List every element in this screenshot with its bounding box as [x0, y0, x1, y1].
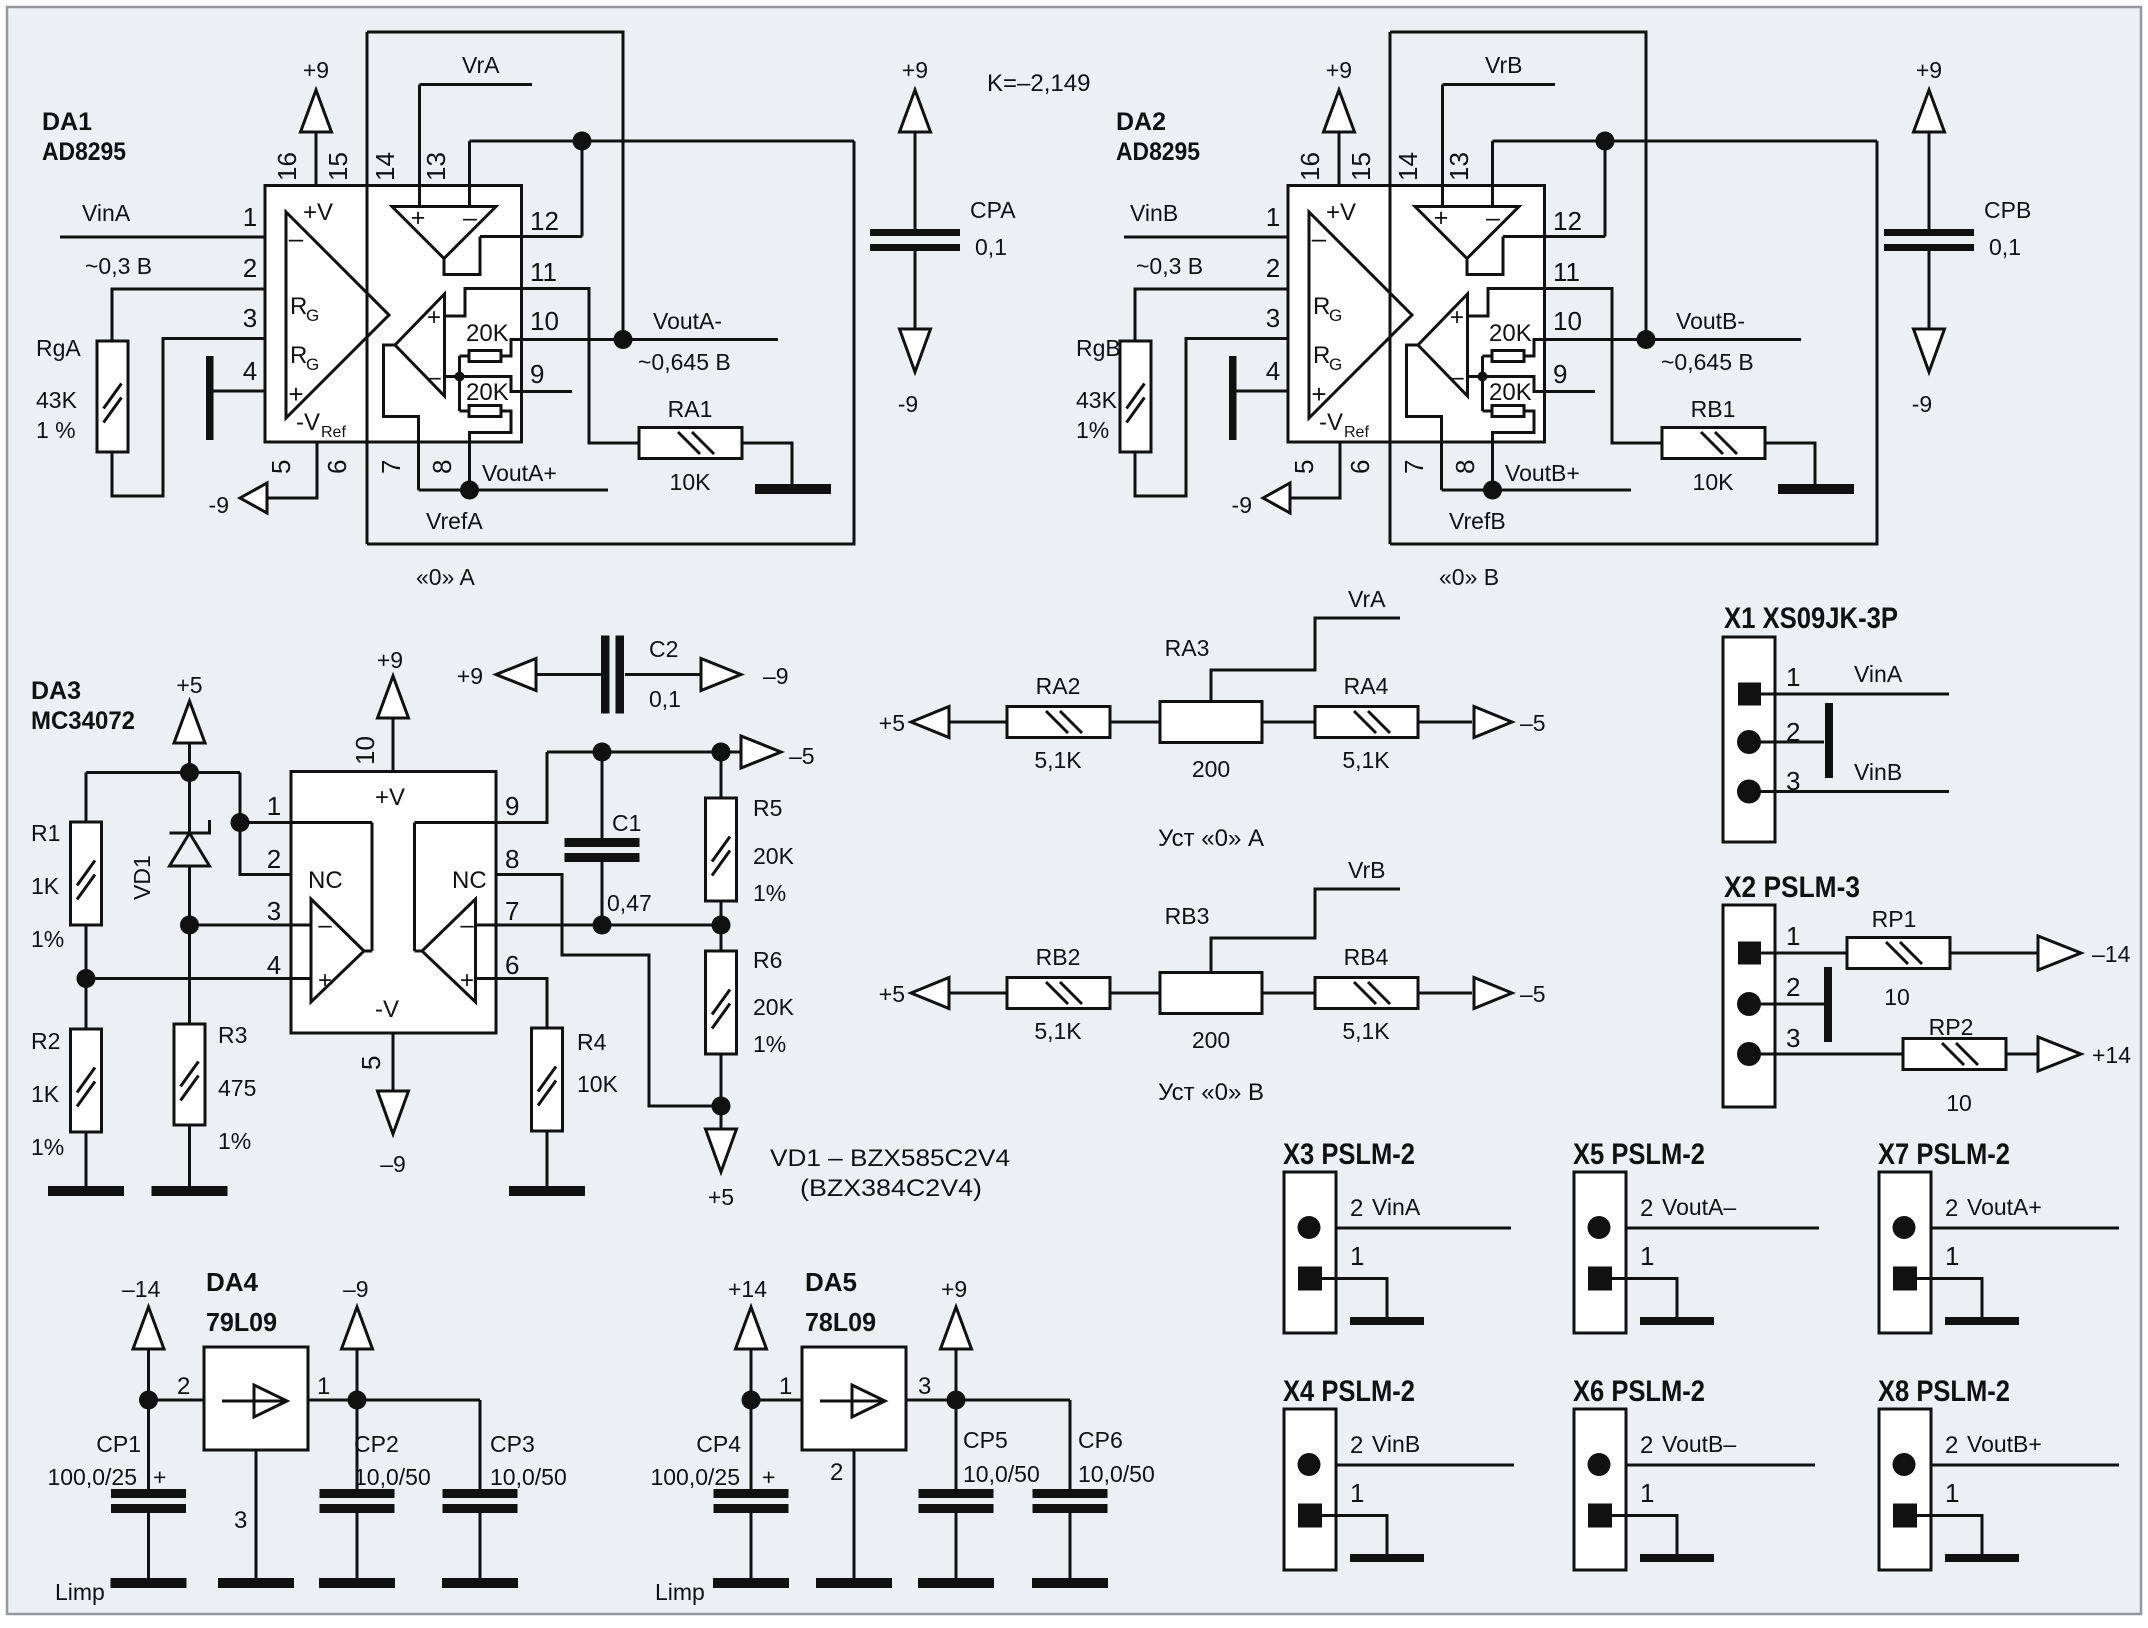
junction DA5 output — [947, 1391, 966, 1410]
svg-text:8: 8 — [427, 460, 457, 474]
svg-text:-9: -9 — [898, 391, 918, 417]
ground R2 — [48, 1186, 124, 1196]
wire 20K lower to pin8 VoutA+ — [470, 411, 512, 490]
svg-text:C2: C2 — [649, 636, 678, 662]
junction R5/R6/pin7 — [712, 916, 731, 935]
wire A2 + input to pin11 — [445, 289, 522, 317]
capacitor CP4 — [714, 1489, 789, 1513]
svg-text:«0» B: «0» B — [1439, 564, 1499, 590]
svg-text:43K: 43K — [1076, 387, 1118, 413]
capacitor CP2 — [320, 1489, 395, 1513]
svg-text:6: 6 — [322, 460, 352, 474]
junction VoutA- / loop — [614, 330, 633, 349]
svg-text:VoutB+: VoutB+ — [1967, 1431, 2042, 1457]
junction VoutA+ — [460, 481, 479, 500]
connector X5 PSLM-2 — [1574, 1172, 1714, 1333]
capacitor CP3 — [443, 1489, 518, 1513]
svg-text:R5: R5 — [753, 795, 782, 821]
op-amp A1 (top) — [392, 207, 496, 259]
wire outer loop left through IC — [366, 32, 369, 544]
wire VrA riser pin14 — [418, 85, 421, 207]
wire DA4 pin1 — [308, 1399, 357, 1402]
resistor R1 — [71, 822, 102, 925]
wire DA3 right amp output riser — [413, 823, 416, 952]
wire R5 top lead — [720, 752, 723, 798]
wire pin11 to RA1 — [522, 289, 640, 444]
wire RgA bottom to pin3 — [112, 339, 265, 497]
svg-text:–: – — [460, 912, 474, 939]
net arrow +9 (C2) — [496, 659, 536, 691]
wire C1 bottom lead — [601, 862, 604, 925]
svg-text:1: 1 — [267, 791, 281, 821]
svg-text:Уст «0» A: Уст «0» A — [1158, 825, 1264, 852]
svg-text:VrB: VrB — [1485, 52, 1523, 78]
zener diode VD1 — [188, 773, 191, 834]
capacitor CP6 — [1033, 1489, 1108, 1513]
connector X6 PSLM-2 — [1574, 1409, 1714, 1570]
junction DA5 input — [742, 1391, 761, 1410]
wire DA5 pin3 — [906, 1399, 956, 1402]
svg-text:3: 3 — [1786, 766, 1800, 796]
wire -5 rail — [547, 751, 741, 754]
svg-text:13: 13 — [421, 152, 451, 181]
net arrow -9 (C2) — [701, 659, 741, 691]
wire RA3 to RA4 — [1262, 721, 1315, 724]
wire to CP6 — [956, 1399, 1070, 1402]
svg-text:CP6: CP6 — [1078, 1427, 1123, 1453]
svg-text:CP3: CP3 — [490, 1431, 535, 1457]
svg-text:2: 2 — [267, 844, 281, 874]
svg-text:1: 1 — [779, 1373, 792, 1400]
svg-text:C1: C1 — [612, 810, 641, 836]
svg-text:AD8295: AD8295 — [42, 138, 126, 166]
wire C1 top lead — [601, 752, 604, 838]
wire VoutA+ — [1931, 1227, 2119, 1230]
svg-text:VinB: VinB — [1372, 1431, 1420, 1457]
svg-text:VD1: VD1 — [129, 855, 155, 900]
svg-text:CP2: CP2 — [354, 1431, 399, 1457]
ground CP2 — [319, 1578, 395, 1588]
svg-text:X1 XS09JK-3P: X1 XS09JK-3P — [1724, 602, 1898, 635]
svg-text:+9: +9 — [902, 57, 928, 83]
svg-text:RA4: RA4 — [1344, 673, 1389, 699]
wire VD1 to R3 — [188, 866, 191, 1024]
connector X2 body — [1723, 905, 1775, 1107]
power arrow -9 (DA4) — [342, 1307, 373, 1349]
wire pin12 to feedback riser — [480, 235, 582, 238]
svg-text:CP5: CP5 — [963, 1427, 1008, 1453]
svg-text:4: 4 — [243, 356, 257, 386]
ground CP1 — [111, 1578, 187, 1588]
svg-text:20K: 20K — [466, 320, 509, 347]
svg-text:100,0/25: 100,0/25 — [650, 1464, 740, 1490]
svg-text:VoutB-: VoutB- — [1676, 308, 1745, 334]
svg-text:DA4: DA4 — [206, 1267, 259, 1297]
svg-text:3: 3 — [243, 303, 257, 333]
svg-text:DA1: DA1 — [42, 108, 92, 136]
X1 pin1 square pad — [1738, 683, 1761, 706]
wire pin4 — [86, 977, 291, 980]
resistor 20K upper — [469, 351, 501, 362]
power arrow +14 (DA5) — [736, 1307, 767, 1349]
svg-text:–9: –9 — [763, 663, 789, 689]
svg-text:RP1: RP1 — [1872, 906, 1917, 932]
svg-text:RB3: RB3 — [1165, 903, 1210, 929]
svg-text:+V: +V — [375, 784, 405, 811]
svg-text:RB1: RB1 — [1691, 396, 1736, 422]
wire CP5 to ground — [955, 1513, 958, 1578]
svg-text:VoutB+: VoutB+ — [1505, 460, 1580, 486]
svg-text:NC: NC — [308, 867, 343, 894]
svg-text:200: 200 — [1192, 1027, 1230, 1053]
svg-text:100,0/25: 100,0/25 — [47, 1464, 137, 1490]
svg-text:10K: 10K — [577, 1071, 619, 1097]
svg-text:+5: +5 — [708, 1184, 734, 1210]
junction DA4 input — [139, 1391, 158, 1410]
wire outer loop top — [367, 32, 623, 339]
svg-text:+9: +9 — [457, 663, 483, 689]
capacitor CP5 — [919, 1489, 994, 1513]
IC body DA3 — [291, 772, 496, 1034]
svg-text:10K: 10K — [670, 469, 712, 495]
IC DA4 79L09 — [204, 1347, 308, 1450]
svg-text:4: 4 — [267, 950, 281, 980]
svg-text:VoutA–: VoutA– — [1662, 1194, 1736, 1220]
svg-text:X6 PSLM-2: X6 PSLM-2 — [1573, 1375, 1705, 1408]
op-amp DA3.1 — [311, 899, 364, 1002]
wire A2 - input — [445, 375, 460, 378]
svg-text:+5: +5 — [879, 981, 905, 1007]
svg-text:~0,645 B: ~0,645 B — [638, 349, 731, 375]
svg-text:10: 10 — [1884, 984, 1910, 1010]
IC body DA1/DA2 AD8295 — [265, 186, 522, 443]
svg-text:–14: –14 — [2092, 941, 2131, 967]
svg-text:78L09: 78L09 — [805, 1307, 876, 1337]
svg-text:2: 2 — [1350, 1195, 1363, 1222]
wire VinA — [1336, 1227, 1511, 1230]
X2 pin3 pad — [1737, 1042, 1761, 1066]
wire CP2 to ground — [356, 1513, 359, 1578]
wire RA4 to -5 — [1418, 721, 1472, 724]
svg-text:1: 1 — [1945, 1241, 1959, 1271]
junction +5 rail — [180, 763, 199, 782]
svg-text:2: 2 — [1350, 1432, 1363, 1459]
svg-text:16: 16 — [272, 152, 302, 181]
svg-text:5,1K: 5,1K — [1342, 1018, 1390, 1044]
svg-text:1: 1 — [1786, 921, 1800, 951]
svg-text:RP2: RP2 — [1929, 1014, 1974, 1040]
wire C2 right — [625, 673, 701, 676]
wire DA3.1 + input — [291, 977, 311, 980]
power arrow +9 (DA5) — [941, 1307, 972, 1349]
resistor RA4 — [1315, 707, 1418, 738]
wire R4 to ground — [546, 1130, 549, 1186]
svg-text:NC: NC — [452, 867, 487, 894]
svg-text:VrB: VrB — [1348, 857, 1386, 883]
resistor R2 — [71, 1029, 102, 1132]
wire DA3 notch top-left / pin1 — [291, 821, 372, 824]
wire pin4 to common bar — [214, 390, 266, 393]
svg-text:–5: –5 — [789, 743, 815, 769]
svg-text:Limp: Limp — [655, 1579, 705, 1605]
svg-text:1: 1 — [317, 1373, 330, 1400]
wire pin1 — [240, 821, 291, 824]
common-rail bar at pin4 — [206, 356, 214, 440]
resistor RB2 — [1007, 978, 1110, 1009]
power arrow -9 (CPA/CPB bottom) — [900, 329, 931, 372]
svg-text:20K: 20K — [466, 379, 509, 406]
wire CP4 to ground — [750, 1513, 753, 1578]
svg-text:11: 11 — [530, 257, 557, 287]
wire A1 inverting feedback riser pin13 — [468, 141, 471, 207]
svg-text:RgA: RgA — [36, 335, 81, 361]
wire RB3 wiper to VrB — [1211, 889, 1400, 973]
wire R1 top — [85, 773, 88, 823]
net arrow -5 (RB4) — [1474, 978, 1512, 1009]
wire cap to -9 — [914, 251, 917, 329]
wire RB2 to RB3 — [1110, 992, 1160, 995]
wire RB3 to RB4 — [1262, 992, 1315, 995]
capacitor C1 — [565, 838, 640, 862]
wire R6 bottom — [720, 1054, 723, 1133]
svg-text:0,1: 0,1 — [975, 234, 1007, 260]
svg-text:R: R — [290, 342, 307, 369]
svg-text:CP1: CP1 — [96, 1431, 141, 1457]
svg-text:7: 7 — [505, 896, 519, 926]
power arrow +5 (DA3) — [174, 701, 205, 743]
svg-text:VoutB–: VoutB– — [1662, 1431, 1736, 1457]
wire RB4 to -5 — [1418, 992, 1472, 995]
wire to DA5 pin1 — [751, 1399, 802, 1402]
wire to DA4 pin2 — [149, 1399, 205, 1402]
power arrow +9 (CPA/CPB top) — [900, 90, 931, 132]
net arrow +5 (RA2 row) — [911, 707, 949, 738]
wire +5 to RB2 — [949, 992, 1007, 995]
svg-text:R6: R6 — [753, 947, 782, 973]
net arrow +5 (RB2 row) — [911, 978, 949, 1009]
wire VrA stub — [420, 83, 533, 86]
svg-text:1%: 1% — [31, 1134, 64, 1160]
common-rail bar (X1 pin2) — [1825, 703, 1833, 778]
svg-text:3: 3 — [1786, 1023, 1800, 1053]
svg-text:5: 5 — [356, 1056, 386, 1070]
svg-text:+: + — [460, 967, 474, 994]
svg-text:CPB: CPB — [1984, 197, 2031, 223]
svg-text:5,1K: 5,1K — [1342, 747, 1390, 773]
wire VinB input — [1124, 236, 1288, 239]
svg-text:+: + — [411, 204, 426, 232]
DA5 regulator symbol — [820, 1400, 885, 1403]
wire -14 / CP1 column — [147, 1349, 150, 1489]
svg-text:RA3: RA3 — [1165, 635, 1210, 661]
svg-text:«0» A: «0» A — [416, 564, 475, 590]
svg-text:VoutA+: VoutA+ — [1967, 1194, 2042, 1220]
IC DA2 (duplicate of DA1 geometry) — [1120, 32, 1877, 544]
net arrow -5 (DA3) — [741, 736, 781, 768]
svg-text:1K: 1K — [31, 873, 60, 899]
wire +5 to RA2 — [949, 721, 1007, 724]
svg-text:+5: +5 — [176, 672, 202, 698]
X2 pin2 pad — [1737, 992, 1761, 1016]
svg-text:RB4: RB4 — [1344, 944, 1389, 970]
wire X2 pin1 to RP1 — [1761, 952, 1847, 955]
wire to pin2 — [240, 773, 291, 875]
capacitor CPA/CPB — [870, 229, 960, 251]
svg-text:9: 9 — [530, 359, 544, 389]
wire pin6 to R4 — [496, 979, 547, 1029]
wire DA3.2 + input — [476, 977, 497, 980]
svg-text:1%: 1% — [31, 926, 64, 952]
ground CP3 — [442, 1578, 518, 1588]
svg-text:10: 10 — [350, 736, 380, 765]
svg-text:VinA: VinA — [1372, 1194, 1421, 1220]
svg-text:+9: +9 — [941, 1276, 967, 1302]
connector X7 PSLM-2 — [1879, 1172, 2019, 1333]
wire VinA input — [60, 236, 265, 239]
wire R2 to ground — [85, 1132, 88, 1186]
svg-text:2: 2 — [1786, 717, 1800, 747]
svg-text:475: 475 — [218, 1075, 256, 1101]
svg-text:-V: -V — [375, 996, 399, 1023]
svg-text:7: 7 — [376, 460, 406, 474]
svg-text:1: 1 — [1640, 1241, 1654, 1271]
svg-text:20K: 20K — [753, 994, 795, 1020]
junction DA4 output — [348, 1391, 367, 1410]
svg-text:1%: 1% — [218, 1128, 251, 1154]
svg-text:3: 3 — [267, 896, 281, 926]
svg-text:–5: –5 — [1520, 710, 1546, 736]
svg-text:1: 1 — [1786, 662, 1800, 692]
wire -9 / CP2 column — [356, 1349, 359, 1489]
svg-text:+5: +5 — [879, 710, 905, 736]
svg-text:X3 PSLM-2: X3 PSLM-2 — [1283, 1138, 1415, 1171]
svg-text:MC34072: MC34072 — [31, 707, 135, 735]
svg-text:~0,3 B: ~0,3 B — [1136, 253, 1203, 279]
op-amp A2 (lower) — [395, 294, 445, 396]
svg-text:+V: +V — [303, 199, 333, 226]
wire DA3.1 - input — [291, 924, 311, 927]
svg-text:12: 12 — [530, 206, 559, 236]
power arrow -14 (DA4) — [133, 1307, 164, 1349]
wire pin3 — [190, 924, 292, 927]
resistor R3 — [174, 1024, 205, 1125]
wire RP2 to +14 — [2006, 1053, 2041, 1056]
net arrow -5 (RA4) — [1474, 707, 1512, 738]
wire VoutA– — [1626, 1227, 1819, 1230]
capacitor CP1 — [111, 1489, 186, 1513]
svg-text:VrA: VrA — [1348, 586, 1386, 612]
X1 pin3 pad — [1737, 780, 1761, 804]
svg-text:G: G — [306, 306, 319, 325]
svg-text:1%: 1% — [753, 880, 786, 906]
svg-text:10: 10 — [530, 306, 559, 336]
svg-text:1: 1 — [1350, 1478, 1364, 1508]
svg-text:–9: –9 — [343, 1276, 369, 1302]
svg-text:X5 PSLM-2: X5 PSLM-2 — [1573, 1138, 1705, 1171]
svg-text:–5: –5 — [1520, 981, 1546, 1007]
junction A2 inverting node — [455, 372, 465, 382]
svg-text:–: – — [289, 223, 304, 253]
power arrow -9 (DA3 pin5) — [392, 1033, 395, 1091]
svg-text:6: 6 — [505, 950, 519, 980]
power arrow +9 (DA3 pin10) — [392, 718, 395, 772]
svg-text:R1: R1 — [31, 820, 60, 846]
wire CP6 lead — [1069, 1400, 1072, 1489]
svg-text:RA2: RA2 — [1036, 673, 1081, 699]
wire outer loop bottom/right — [367, 141, 854, 544]
X2 pin1 square pad — [1738, 942, 1761, 965]
svg-text:43K: 43K — [36, 387, 78, 413]
svg-text:2: 2 — [1945, 1195, 1958, 1222]
svg-text:R: R — [290, 293, 307, 320]
wire DA4 pin3 to ground — [255, 1450, 258, 1578]
svg-text:+: + — [762, 1464, 775, 1490]
wire to CP3 — [357, 1399, 480, 1402]
svg-text:X8 PSLM-2: X8 PSLM-2 — [1878, 1375, 2010, 1408]
wire A2 output to pin7 VrefA — [384, 345, 419, 490]
svg-text:10,0/50: 10,0/50 — [963, 1461, 1040, 1487]
wire CP6 to ground — [1069, 1513, 1072, 1578]
svg-text:2: 2 — [830, 1459, 843, 1486]
svg-text:VrefA: VrefA — [426, 508, 483, 534]
svg-text:+14: +14 — [728, 1276, 767, 1302]
junction pin1 tap — [231, 813, 250, 832]
svg-text:2: 2 — [243, 253, 257, 283]
svg-text:+: + — [318, 967, 332, 994]
svg-text:RA1: RA1 — [668, 396, 713, 422]
svg-text:200: 200 — [1192, 756, 1230, 782]
junction VD1/R3/pin3 — [180, 916, 199, 935]
resistor R6 — [706, 951, 737, 1054]
resistor RA1/RB1 — [639, 428, 742, 459]
wire VoutB– — [1626, 1464, 1815, 1467]
svg-text:79L09: 79L09 — [206, 1307, 277, 1337]
wire R5-R6 — [720, 901, 723, 951]
wire +9 to pin16 — [315, 132, 318, 186]
op-amp DA3.2 — [422, 899, 476, 1002]
resistor R5 — [706, 798, 737, 901]
svg-text:Уст «0» B: Уст «0» B — [1158, 1079, 1264, 1106]
wire CP3 lead — [479, 1400, 482, 1489]
svg-text:3: 3 — [918, 1373, 931, 1400]
junction R1/R2/pin4 — [77, 969, 96, 988]
svg-text:R4: R4 — [577, 1029, 607, 1055]
ground RA1 — [755, 484, 831, 494]
svg-text:10,0/50: 10,0/50 — [490, 1464, 567, 1490]
wire pin2 to RgA — [112, 289, 265, 341]
junction pin12/feedback — [573, 132, 592, 151]
DA4 regulator symbol — [222, 1400, 287, 1403]
connector X3 PSLM-2 — [1284, 1172, 1424, 1333]
svg-text:8: 8 — [505, 844, 519, 874]
svg-text:–9: –9 — [380, 1151, 406, 1177]
wire RA2 to RA3 — [1110, 721, 1160, 724]
svg-text:AD8295: AD8295 — [1116, 138, 1200, 166]
ground CP6 — [1032, 1578, 1108, 1588]
svg-text:VinA: VinA — [82, 200, 131, 226]
svg-text:+9: +9 — [377, 647, 403, 673]
net arrow -14 — [2038, 936, 2081, 970]
svg-text:5,1K: 5,1K — [1034, 747, 1082, 773]
wire RP1 to -14 — [1950, 952, 2040, 955]
wire DA5 pin2 to ground — [853, 1450, 856, 1578]
svg-text:1%: 1% — [753, 1031, 786, 1057]
wire DA3 left amp output riser — [371, 823, 374, 952]
svg-text:5: 5 — [266, 460, 296, 474]
svg-text:–: – — [463, 204, 477, 232]
svg-text:0,1: 0,1 — [649, 686, 681, 712]
svg-text:3: 3 — [234, 1507, 247, 1534]
